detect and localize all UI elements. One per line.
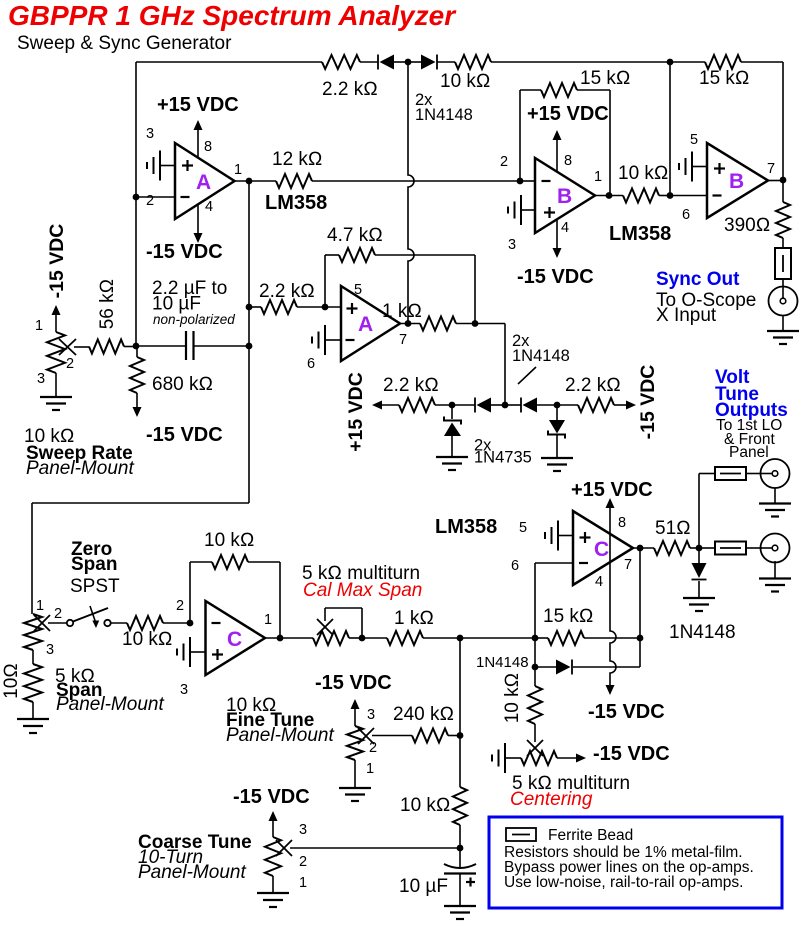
- resistor 10k zero span series: [111, 622, 128, 624]
- svg-text:Panel-Mount: Panel-Mount: [56, 694, 164, 715]
- svg-text:-15 VDC: -15 VDC: [146, 424, 223, 446]
- svg-text:4: 4: [205, 199, 213, 215]
- node top diode junction: [405, 59, 412, 66]
- svg-text:1: 1: [299, 875, 307, 891]
- node B1 output: [606, 192, 613, 199]
- diode 1N4148 volt tune clamp (down): [698, 548, 700, 563]
- power +15 VDC / -15 VDC C2 rail line with hops: [606, 498, 615, 508]
- svg-text:-15 VDC: -15 VDC: [517, 266, 594, 288]
- svg-text:8: 8: [204, 139, 212, 155]
- resistor 2.2k clamp right: [557, 404, 578, 406]
- wire cap right: [194, 345, 250, 347]
- potentiometer 5k multiturn Centering: [521, 751, 557, 765]
- wire vertical top rail to B1 output stage: [669, 62, 671, 196]
- svg-text:8: 8: [564, 153, 572, 169]
- svg-text:15 kΩ: 15 kΩ: [580, 68, 631, 89]
- node C1 inverting input: [187, 620, 194, 627]
- svg-text:2: 2: [176, 598, 184, 614]
- switch SPST zero span: [67, 620, 73, 626]
- potentiometer 10k Fine Tune: [347, 726, 363, 760]
- wiper sweep pot: [59, 339, 76, 355]
- op-amp U1A (A1): [175, 143, 235, 219]
- resistor 51 ohm: [654, 541, 690, 555]
- wire fine tune node vertical: [459, 638, 461, 787]
- ground C2 non-inverting input (sideways): [557, 521, 559, 551]
- arrow -15 VDC clamp right: [626, 401, 636, 410]
- svg-text:3: 3: [146, 126, 154, 142]
- resistor 240k: [412, 729, 448, 743]
- svg-text:1N4148: 1N4148: [415, 106, 473, 124]
- svg-text:Panel: Panel: [729, 444, 769, 461]
- node A2 output: [405, 320, 412, 327]
- node fine tune branch: [457, 635, 464, 642]
- svg-text:B: B: [729, 170, 744, 193]
- svg-text:10 kΩ: 10 kΩ: [122, 629, 173, 650]
- svg-text:+15 VDC: +15 VDC: [571, 479, 653, 501]
- svg-text:A: A: [196, 171, 211, 194]
- wire cap node down to span pot: [248, 346, 250, 503]
- resistor 12k: [276, 174, 312, 188]
- svg-text:2.2 kΩ: 2.2 kΩ: [565, 375, 621, 396]
- svg-text:6: 6: [307, 356, 315, 372]
- svg-text:1 kΩ: 1 kΩ: [382, 301, 422, 322]
- connector BNC volt tune lower: [746, 547, 762, 549]
- node A1 inverting input: [133, 194, 140, 201]
- svg-text:1: 1: [264, 612, 272, 628]
- svg-text:LM358: LM358: [609, 223, 671, 245]
- svg-text:Sweep & Sync Generator: Sweep & Sync Generator: [17, 33, 232, 54]
- power +15 VDC A1 pin 8: [197, 130, 199, 158]
- ground A1 non-inverting input (sideways): [159, 151, 161, 181]
- power -15 VDC 680k: [136, 393, 138, 407]
- node C1 output / feedback: [277, 635, 284, 642]
- svg-text:5: 5: [690, 132, 698, 148]
- power -15 VDC B1 pin 4: [556, 219, 558, 248]
- wire sweep pot to ground: [55, 373, 57, 396]
- node top rail to B1 branch: [667, 59, 674, 66]
- resistor 10k to centering pot: [534, 667, 536, 686]
- svg-text:10 kΩ: 10 kΩ: [400, 795, 451, 816]
- svg-text:2: 2: [146, 193, 154, 209]
- ground BNC volt tune upper: [774, 488, 776, 503]
- ferrite bead sync out: [775, 248, 791, 279]
- power +15 VDC B1 pin 8: [556, 140, 558, 172]
- ground 10uF cap: [444, 905, 476, 907]
- resistor 2.2k top: [322, 55, 360, 69]
- svg-text:4: 4: [561, 220, 569, 236]
- svg-text:5: 5: [519, 520, 527, 536]
- ground B1 non-inverting input (sideways): [520, 195, 522, 225]
- svg-text:-15 VDC: -15 VDC: [588, 701, 665, 723]
- svg-text:3: 3: [180, 682, 188, 698]
- svg-text:2.2 kΩ: 2.2 kΩ: [383, 375, 439, 396]
- svg-text:10Ω: 10Ω: [1, 663, 22, 699]
- resistor 15k top right: [705, 55, 741, 69]
- svg-text:680 kΩ: 680 kΩ: [152, 374, 213, 395]
- node B2 output: [780, 177, 787, 184]
- resistor 56k: [89, 340, 124, 354]
- svg-text:56 kΩ: 56 kΩ: [97, 279, 118, 330]
- wiper centering pot: [534, 724, 536, 742]
- svg-text:15 kΩ: 15 kΩ: [699, 68, 750, 89]
- svg-text:4.7 kΩ: 4.7 kΩ: [327, 225, 383, 246]
- svg-text:X Input: X Input: [656, 305, 717, 326]
- svg-text:non-polarized: non-polarized: [153, 312, 235, 327]
- svg-text:3: 3: [367, 707, 375, 723]
- svg-text:1 kΩ: 1 kΩ: [394, 608, 434, 629]
- ground sync BNC: [767, 330, 799, 332]
- resistor 10k top: [455, 55, 491, 69]
- svg-text:2: 2: [500, 154, 508, 170]
- svg-text:1: 1: [35, 318, 43, 334]
- wire 1k node to clamp diodes: [475, 323, 505, 325]
- svg-text:GBPPR 1 GHz Spectrum Analyzer: GBPPR 1 GHz Spectrum Analyzer: [8, 0, 457, 31]
- svg-text:4: 4: [595, 574, 603, 590]
- potentiometer 5k Span: [24, 614, 42, 650]
- resistor 680k: [130, 357, 144, 393]
- node clamp center: [502, 402, 509, 409]
- wiper-to-end strap cal max span: [324, 608, 326, 621]
- resistor 390 ohm: [782, 180, 784, 202]
- diode clamp right 1N4148 (pointing left): [520, 398, 522, 413]
- svg-text:2: 2: [66, 356, 74, 372]
- node cal max span right: [359, 635, 366, 642]
- wire A1 inverting input: [136, 196, 175, 198]
- diode clamp left 1N4148 (pointing left): [474, 398, 476, 413]
- svg-text:2: 2: [369, 740, 377, 756]
- svg-text:2.2 kΩ: 2.2 kΩ: [322, 79, 378, 100]
- resistor 10k B1 output: [623, 189, 659, 203]
- ground centering pot left (sideways): [504, 743, 506, 773]
- wire C2 inverting input: [535, 562, 573, 564]
- ground sweep pot: [40, 396, 72, 398]
- svg-text:390Ω: 390Ω: [724, 215, 770, 236]
- potentiometer 5k Cal Max Span: [313, 631, 349, 645]
- wire cap left: [136, 345, 185, 347]
- ground BNC volt tune lower: [774, 561, 776, 578]
- notes box: [489, 817, 782, 908]
- svg-text:-15 VDC: -15 VDC: [315, 672, 392, 694]
- svg-text:+15 VDC: +15 VDC: [527, 103, 609, 125]
- svg-text:1: 1: [594, 169, 602, 185]
- diode D2 1N4148 top (pointing right): [421, 55, 436, 70]
- ground coarse tune pot: [272, 876, 274, 892]
- svg-text:1N4148: 1N4148: [476, 654, 529, 671]
- resistor 2.2k clamp left: [399, 398, 435, 412]
- svg-text:Use low-noise, rail-to-rail op: Use low-noise, rail-to-rail op-amps.: [504, 874, 743, 891]
- resistor 4.7k feedback: [324, 255, 326, 307]
- power arrow -15 VDC sweep pot pin 1: [52, 305, 61, 315]
- svg-text:2: 2: [54, 606, 62, 622]
- node C2 feedback right: [637, 635, 644, 642]
- ground A2 inverting input (sideways): [324, 325, 326, 355]
- ground zener left: [436, 456, 468, 458]
- svg-text:240 kΩ: 240 kΩ: [393, 704, 454, 725]
- node 240k / 10k divider: [457, 732, 464, 739]
- svg-text:+15 VDC: +15 VDC: [345, 372, 367, 452]
- svg-text:1N4148: 1N4148: [669, 622, 736, 643]
- op-amp U2B second half (B2): [707, 143, 768, 218]
- connector BNC volt tune upper: [746, 473, 761, 475]
- svg-text:10 kΩ: 10 kΩ: [204, 530, 255, 551]
- svg-text:10 kΩ: 10 kΩ: [618, 163, 669, 184]
- node cap right: [246, 343, 253, 350]
- ground zener right: [541, 457, 573, 459]
- svg-text:3: 3: [508, 237, 516, 253]
- wire 12k to B1 inverting input: [312, 180, 520, 182]
- svg-text:B: B: [557, 185, 572, 208]
- resistor 15k C2 feedback: [535, 637, 548, 639]
- potentiometer Coarse Tune 10-turn: [265, 837, 281, 876]
- resistor 10k C1 feedback: [189, 562, 191, 623]
- svg-text:15 kΩ: 15 kΩ: [543, 606, 594, 627]
- arrow +15 VDC clamp left: [372, 401, 382, 410]
- svg-text:5: 5: [354, 282, 362, 298]
- svg-text:3: 3: [46, 642, 54, 658]
- wiper coarse tune pot: [276, 840, 292, 856]
- svg-text:Cal Max Span: Cal Max Span: [303, 580, 422, 601]
- svg-text:2: 2: [299, 854, 307, 870]
- node volt tune output junction: [696, 545, 703, 552]
- svg-text:7: 7: [624, 557, 632, 573]
- arrow -15 VDC coarse tune: [269, 811, 278, 821]
- ground B2 non-inverting input (sideways): [691, 152, 693, 182]
- node A1 output: [246, 178, 253, 185]
- ferrite bead legend symbol: [506, 828, 536, 841]
- svg-text:2.2 kΩ: 2.2 kΩ: [259, 281, 315, 302]
- svg-text:51Ω: 51Ω: [655, 518, 691, 539]
- svg-text:1: 1: [36, 598, 44, 614]
- ground span pot: [32, 702, 34, 718]
- ground C1 non-inverting input (sideways): [189, 637, 191, 667]
- node B1 inverting input: [517, 178, 524, 185]
- ground volt tune diode: [683, 597, 715, 599]
- svg-text:-15 VDC: -15 VDC: [46, 224, 68, 299]
- svg-text:SPST: SPST: [70, 576, 120, 597]
- svg-text:C: C: [227, 628, 242, 651]
- op-amp U3C (C2): [573, 511, 633, 585]
- resistor 1k A2 output: [420, 317, 456, 331]
- svg-text:7: 7: [767, 161, 775, 177]
- op-amp U3C first half (C1): [206, 601, 266, 675]
- op-amp U2B (B1): [535, 158, 595, 233]
- wire left vertical from top rail to A1 inverting input and cap node: [135, 62, 137, 346]
- node A2 plus input branch: [246, 304, 253, 311]
- ferrite bead volt tune lower: [699, 547, 715, 549]
- zener 1N4735 right (cathode down): [556, 405, 558, 420]
- node 1k / 4.7k junction: [472, 320, 479, 327]
- svg-text:-15 VDC: -15 VDC: [233, 786, 310, 808]
- svg-text:Sync Out: Sync Out: [656, 269, 740, 290]
- power -15 VDC A1 pin 4: [197, 204, 199, 233]
- svg-text:Panel-Mount: Panel-Mount: [138, 862, 246, 883]
- svg-text:Span: Span: [71, 554, 117, 575]
- resistor 2.2k A2 input: [249, 306, 261, 308]
- node clamp left zener: [449, 402, 456, 409]
- svg-text:+15 VDC: +15 VDC: [157, 94, 239, 116]
- svg-text:3: 3: [299, 822, 307, 838]
- node C2 feedback left: [532, 635, 539, 642]
- capacitor 2.2uF-10uF non-polarized: [185, 331, 187, 360]
- svg-text:Panel-Mount: Panel-Mount: [26, 458, 134, 479]
- node integrator cap left: [133, 343, 140, 350]
- op-amp U1A second half (A2): [341, 286, 400, 361]
- svg-text:-15 VDC: -15 VDC: [637, 365, 659, 440]
- svg-text:3: 3: [37, 371, 45, 387]
- svg-text:-15 VDC: -15 VDC: [146, 241, 223, 263]
- svg-text:6: 6: [682, 207, 690, 223]
- svg-text:12 kΩ: 12 kΩ: [272, 149, 323, 170]
- node clamp right zener: [554, 402, 561, 409]
- capacitor 10uF polarized: [459, 848, 461, 868]
- svg-text:LM358: LM358: [435, 516, 497, 538]
- svg-text:Centering: Centering: [510, 789, 593, 810]
- wire A1 output down to integrator cap node: [248, 181, 250, 346]
- wire C2 output down: [639, 548, 641, 667]
- svg-text:10 kΩ: 10 kΩ: [440, 71, 491, 92]
- wiper cal max span pot: [317, 619, 333, 635]
- svg-text:A: A: [358, 313, 373, 336]
- wiper span pot: [34, 615, 50, 631]
- diode 1N4148 C2 feedback (pointing right): [532, 664, 539, 671]
- svg-text:LM358: LM358: [265, 192, 327, 214]
- zener 1N4735 left (cathode up): [451, 405, 453, 419]
- wire to upper volt tune bead: [698, 474, 700, 549]
- resistor 1k C1 output: [387, 631, 423, 645]
- ferrite bead volt tune upper: [715, 467, 746, 480]
- svg-text:1N4148: 1N4148: [512, 347, 570, 365]
- node B2 input junction: [667, 192, 674, 199]
- resistor 10 ohm below span pot: [32, 650, 34, 664]
- svg-text:10 kΩ: 10 kΩ: [502, 673, 523, 724]
- arrow -15 VDC centering: [557, 757, 576, 759]
- arrow -15 VDC fine tune: [351, 699, 360, 709]
- svg-text:1: 1: [234, 162, 242, 178]
- svg-text:C: C: [594, 538, 609, 561]
- wiper fine tune pot: [358, 728, 374, 744]
- node coarse tune junction: [457, 845, 464, 852]
- ground fine tune pot: [354, 760, 356, 787]
- node C2 output: [637, 545, 644, 552]
- svg-text:Panel-Mount: Panel-Mount: [226, 725, 334, 746]
- svg-text:10 µF: 10 µF: [399, 876, 448, 897]
- resistor 10k divider: [453, 787, 467, 825]
- wire right vertical top rail to B2 output: [782, 62, 784, 180]
- diode D1 1N4148 top (pointing left): [377, 55, 379, 70]
- node A2 plus / 4.7k junction: [322, 304, 329, 311]
- potentiometer 10k Sweep Rate: [47, 332, 65, 373]
- svg-text:1: 1: [366, 761, 374, 777]
- svg-text:1N4735: 1N4735: [474, 449, 532, 467]
- svg-text:-15 VDC: -15 VDC: [593, 743, 670, 765]
- svg-text:7: 7: [399, 332, 407, 348]
- svg-text:Ferrite Bead: Ferrite Bead: [548, 827, 633, 844]
- wire bead to sync BNC: [782, 279, 784, 287]
- connector BNC sync out: [769, 287, 798, 316]
- svg-text:8: 8: [618, 515, 626, 531]
- wire top feedback rail: [136, 61, 322, 63]
- wire top diode junction down to A2 output (with hops): [408, 62, 414, 324]
- svg-text:6: 6: [511, 558, 519, 574]
- resistor 15k B1 feedback: [519, 90, 521, 181]
